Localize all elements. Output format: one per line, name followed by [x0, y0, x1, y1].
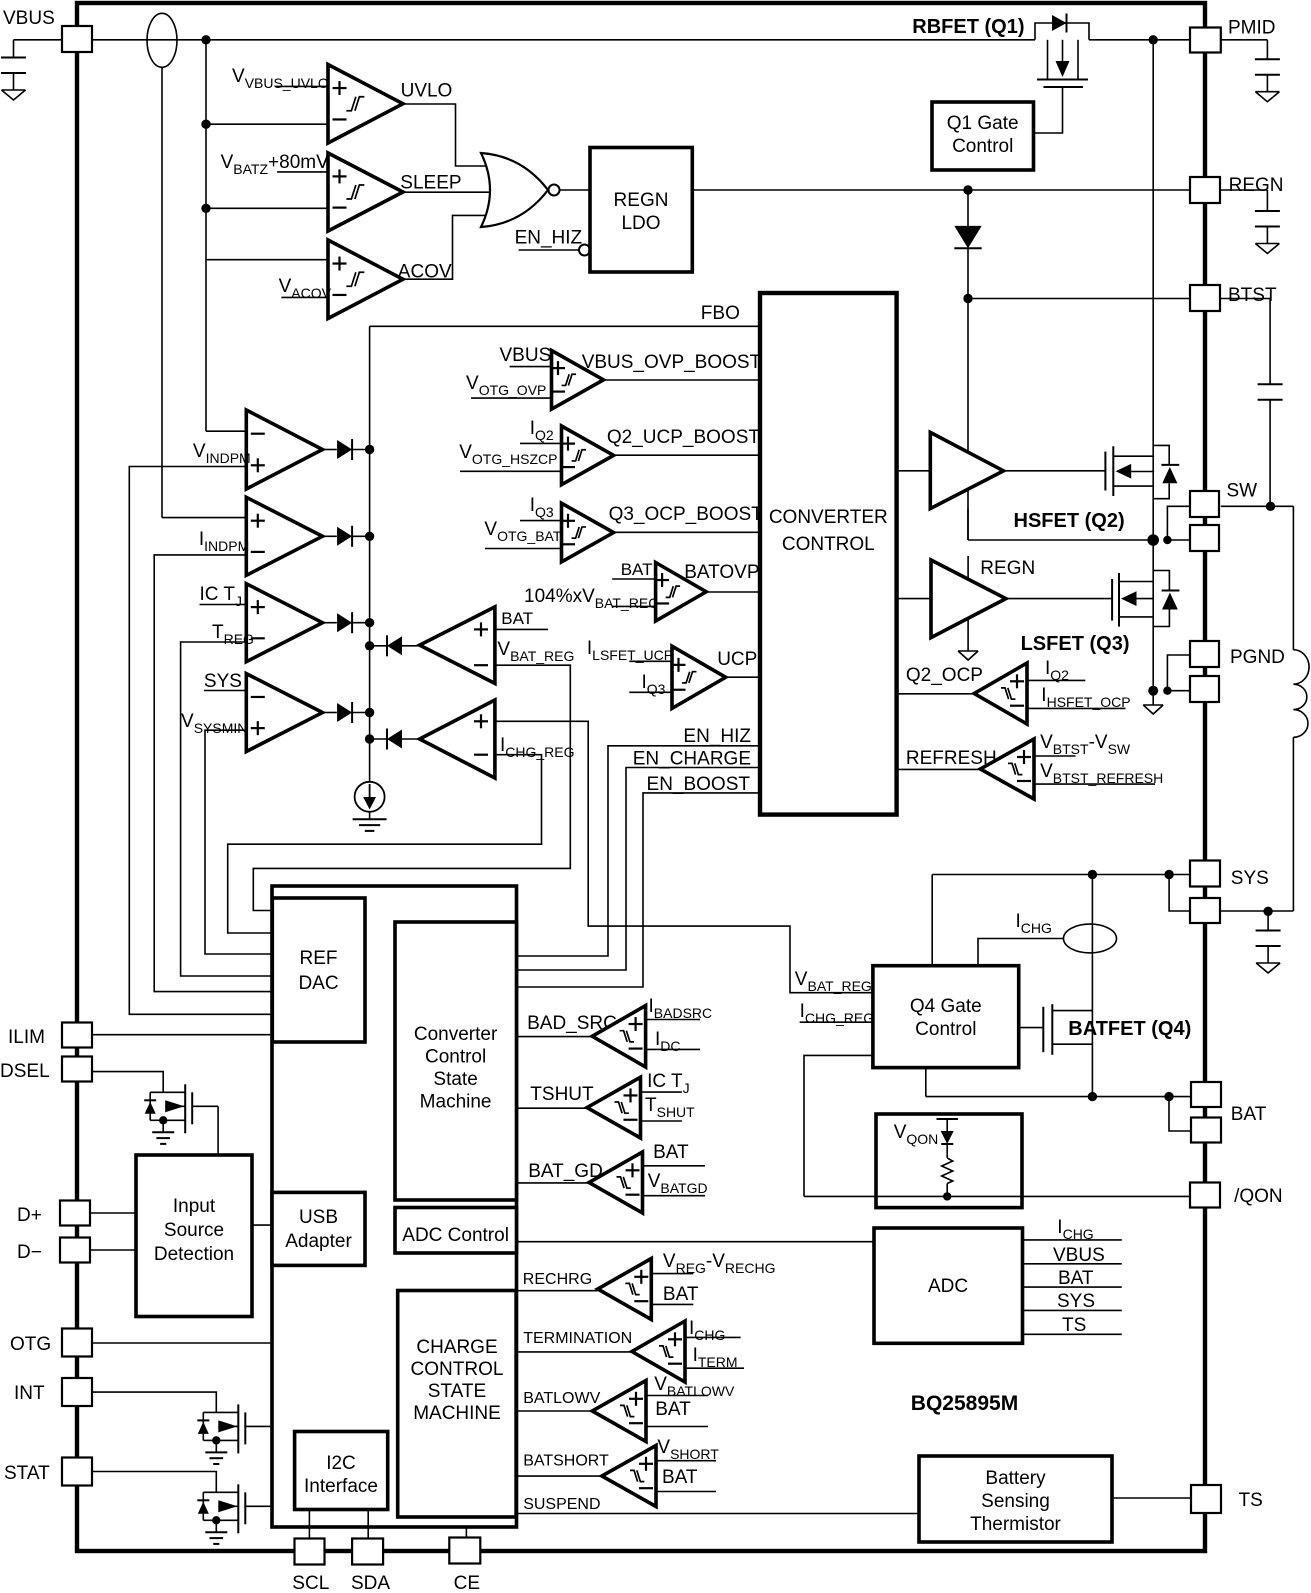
transistor Q1 RBFET channel — [1037, 40, 1088, 80]
label TERMINATION — [523, 1330, 632, 1347]
svg-text:ADC: ADC — [928, 1276, 968, 1297]
wire BAT_GD minus stub — [643, 1195, 706, 1197]
node SYS rail junction (pin tap) — [1164, 870, 1173, 879]
wire RECHRG output — [516, 1290, 598, 1292]
wire STAT to FET — [92, 1472, 216, 1493]
label UCP — [717, 649, 757, 670]
diode V_INDPM output diode — [323, 439, 370, 460]
wire Q3_OCP output — [614, 531, 760, 533]
wire Q4GC gate output — [1019, 1027, 1044, 1029]
wire DSEL to FET gate drop — [92, 1072, 163, 1093]
svg-text:BAT: BAT — [655, 1399, 691, 1420]
wire UVLO output to NOR — [403, 104, 494, 166]
label PMID pin — [1228, 18, 1276, 39]
transistor STAT open-drain FET — [197, 1484, 272, 1544]
wire SLEEP plus stub — [277, 171, 328, 173]
svg-text:Q4 Gate: Q4 Gate — [910, 996, 982, 1017]
label REFRESH — [906, 748, 997, 769]
label VACOV — [279, 276, 332, 301]
label D+ pin — [17, 1205, 42, 1226]
wire ISD to USB Adapter — [252, 1224, 272, 1226]
resistor VQON pull resistor — [942, 1158, 953, 1197]
comparator BAD_SRC — [592, 1006, 645, 1067]
label ICHG_REG (amp input) — [500, 735, 575, 760]
wire TERMINATION output — [516, 1351, 632, 1353]
label USB Adapter text — [285, 1207, 352, 1252]
wire SYS minus stub — [204, 690, 246, 692]
wire ADC out VBUS — [1023, 1263, 1122, 1265]
diode SYS amp output diode — [323, 702, 370, 723]
wire EN_HIZ net — [517, 746, 761, 956]
svg-text:BATLOWV: BATLOWV — [523, 1390, 600, 1407]
block REGN LDO — [590, 148, 692, 273]
wire LSFET driver output — [1006, 598, 1112, 600]
wire UCP output — [726, 676, 760, 678]
label VBATZ+80mV — [221, 152, 329, 177]
label IQ2 (Q2_OCP plus) — [1045, 658, 1069, 683]
svg-text:TSHUT: TSHUT — [530, 1084, 594, 1105]
node error bus junction 2 — [365, 532, 374, 541]
label IC TJ — [200, 584, 243, 609]
diode ICHG_REG amp diode — [370, 729, 420, 750]
svg-text:REGN: REGN — [980, 558, 1035, 579]
svg-text:SCL: SCL — [292, 1573, 329, 1593]
label VSYSMIN — [181, 711, 247, 736]
label IDC — [655, 1029, 681, 1054]
comparator SLEEP — [328, 153, 403, 231]
block Input Source Detection — [136, 1155, 252, 1317]
label CHARGE CONTROL text — [411, 1337, 504, 1424]
wire ICHG_REG stub to Q4GC — [800, 1021, 873, 1023]
wire DSEL FET gate to ISD block — [217, 1106, 219, 1155]
wire BAT_GD plus stub — [643, 1165, 706, 1167]
wire thermistor to TS pin — [1112, 1497, 1191, 1499]
wire PMID rail — [1089, 39, 1190, 41]
block VQON network — [876, 1114, 1022, 1208]
label REGN (LSFET driver supply) — [980, 558, 1035, 579]
label BAT (ADC out) — [1058, 1268, 1094, 1289]
wire Q2_UCP minus stub — [460, 470, 562, 472]
svg-text:Adapter: Adapter — [285, 1231, 352, 1252]
svg-text:TERMINATION: TERMINATION — [523, 1330, 632, 1347]
wire OTG to core — [92, 1342, 272, 1344]
node junction to SLEEP minus — [201, 204, 210, 213]
amplifier LSFET gate driver — [931, 560, 1006, 638]
comparator VBUS_OVP — [551, 351, 604, 410]
node error bus junction 4 — [365, 708, 374, 717]
node SW pin tap — [1163, 536, 1171, 544]
wire BATFET drain vertical — [1091, 875, 1093, 1097]
svg-text:EN_HIZ: EN_HIZ — [683, 726, 751, 747]
wire to UVLO minus input — [206, 123, 328, 125]
capacitor PMID cap and ground — [1255, 59, 1280, 101]
svg-text:REGN: REGN — [1229, 175, 1284, 196]
node SW external junction — [1266, 502, 1275, 511]
svg-text:BAT: BAT — [1231, 1104, 1267, 1125]
label SYS pin — [1231, 868, 1269, 889]
current source error bus bias — [355, 782, 385, 812]
transistor DSEL detect FET — [144, 1084, 218, 1144]
wire Q2_OCP output to converter — [897, 693, 975, 695]
wire REFRESH output to converter — [897, 768, 981, 770]
pin SCL — [295, 1539, 325, 1565]
comparator REFRESH — [980, 739, 1034, 799]
inductor L1 (SW to SYS) — [1293, 650, 1309, 738]
wire BTST cap to SW — [1269, 400, 1271, 507]
label TREG — [212, 622, 254, 647]
wire REFRESH minus stub — [1034, 783, 1155, 785]
diode thermal amp output diode — [323, 612, 370, 633]
diode Q3 body diode — [1154, 571, 1180, 627]
label Q1 Gate Control text — [947, 113, 1019, 157]
wire REFRESH plus stub — [1034, 755, 1076, 757]
label EN_HIZ (converter control) — [683, 726, 751, 747]
label ITERM — [693, 1345, 738, 1370]
comparator RECHRG — [598, 1259, 652, 1320]
block ADC Control — [395, 1208, 517, 1254]
wire TSHUT minus stub — [641, 1120, 682, 1122]
transistor Q1 gate — [1034, 87, 1084, 133]
wire BAT pin2 loop — [1169, 1097, 1191, 1131]
label VBATLOWV — [654, 1374, 735, 1399]
label SYS (amp input) — [204, 671, 242, 692]
amplifier battery voltage reg amp (BAT/VBAT_REG) — [420, 607, 495, 684]
wire BAD_SRC output — [517, 1036, 593, 1038]
svg-text:PGND: PGND — [1230, 647, 1285, 668]
label HSFET (Q2) — [1014, 510, 1125, 532]
ground VBUS input cap ground — [2, 90, 26, 100]
node PMID rail junction — [1149, 35, 1158, 44]
svg-text:DSEL: DSEL — [0, 1061, 50, 1082]
svg-text:STAT: STAT — [4, 1463, 50, 1484]
svg-text:OTG: OTG — [10, 1334, 51, 1355]
diode I_INDPM output diode — [323, 526, 370, 547]
label ILIM pin — [8, 1027, 45, 1048]
label BATLOWV — [523, 1390, 600, 1407]
wire Q3 drain-source vertical — [1152, 540, 1154, 691]
wire V_INDPM plus input — [129, 467, 272, 1015]
svg-text:State: State — [433, 1069, 477, 1090]
svg-text:ILIM: ILIM — [8, 1027, 45, 1048]
svg-text:Q2_OCP: Q2_OCP — [906, 665, 983, 686]
svg-text:REGN: REGN — [614, 190, 669, 211]
pin CE — [449, 1538, 480, 1564]
wire Q4GC to QON net — [804, 1055, 873, 1196]
label BAT (BATSHORT minus) — [662, 1467, 698, 1488]
svg-text:EN_HIZ: EN_HIZ — [515, 228, 583, 249]
wire SW external to inductor — [1221, 506, 1294, 649]
block Q1 Gate Control — [932, 102, 1034, 170]
label LSFET (Q3) — [1021, 633, 1130, 655]
svg-text:EN_CHARGE: EN_CHARGE — [633, 749, 751, 770]
label RBFET (Q1) — [912, 16, 1024, 38]
svg-text:UCP: UCP — [717, 649, 757, 670]
transistor Q2 HSFET channel — [1113, 446, 1154, 496]
svg-text:SYS: SYS — [1231, 868, 1269, 889]
diode Q2 body diode — [1154, 445, 1179, 498]
label VOTG_OVP — [466, 373, 546, 398]
wire TSHUT plus stub — [641, 1091, 682, 1093]
pin SYS (lower) — [1190, 898, 1220, 923]
label CONVERTER CONTROL text — [769, 507, 888, 555]
pin INT — [62, 1378, 92, 1406]
wire REGN cap stub — [1221, 190, 1268, 211]
block Q4 Gate Control — [873, 966, 1019, 1068]
label REGN pin — [1229, 175, 1284, 196]
wire UCP minus stub — [629, 691, 672, 693]
wire UVLO plus stub — [276, 85, 328, 87]
current sense ellipse input current — [147, 13, 177, 67]
label ILSFET_UCP — [587, 638, 673, 663]
label BATOVP — [684, 562, 759, 583]
wire PMID cap stub — [1221, 40, 1268, 59]
wire BATLOWV minus stub — [646, 1426, 708, 1428]
pin TS — [1191, 1485, 1221, 1513]
label BAT (BATOVP plus) — [621, 560, 653, 579]
pin STAT — [62, 1458, 92, 1486]
wire bias to ground — [369, 812, 371, 820]
label IINDPM — [199, 529, 249, 554]
label BAT (vreg amp) — [501, 609, 533, 628]
pin PGND (lower) — [1190, 676, 1219, 702]
diode REGN-to-BTST bootstrap diode — [954, 190, 981, 299]
wire SW rail to driver — [968, 539, 1153, 541]
wire SYS cap stub — [1267, 911, 1269, 930]
svg-text:CONTROL: CONTROL — [411, 1359, 504, 1380]
wire SLEEP output to NOR — [403, 191, 497, 193]
svg-text:Sensing: Sensing — [981, 1491, 1050, 1512]
wire ILIM to REF DAC — [92, 1034, 272, 1036]
label BAT pin — [1231, 1104, 1267, 1125]
wire PGND pin1 loop — [1167, 655, 1190, 691]
label Q4 Gate Control text — [910, 996, 982, 1040]
label Battery Sensing Thermistor text — [970, 1468, 1061, 1535]
label VBUS pin — [3, 8, 55, 29]
label IQ3 (Q3 OCP plus) — [530, 495, 554, 520]
node PGND pin tap — [1163, 687, 1171, 695]
svg-text:D−: D− — [17, 1242, 42, 1263]
block Battery Sensing Thermistor — [919, 1456, 1112, 1542]
wire BATSHORT plus stub — [656, 1460, 716, 1462]
pin REGN — [1190, 177, 1220, 203]
wire Q2_UCP plus stub — [520, 442, 562, 444]
wire D- to ISD — [90, 1249, 136, 1251]
label EN_CHARGE — [633, 749, 751, 770]
wire SUSPEND net to thermistor block — [516, 1513, 919, 1515]
pin SW (lower) — [1190, 525, 1219, 551]
pin BTST — [1190, 285, 1220, 311]
capacitor BTST bootstrap cap — [1258, 384, 1283, 400]
wire ADC out BAT — [1023, 1286, 1122, 1288]
wire HSFET driver output — [1004, 470, 1106, 472]
label SUSPEND — [523, 1496, 600, 1513]
node SW junction (Q2 source / Q3 drain) — [1147, 534, 1159, 546]
label VBTST-VSW — [1040, 732, 1131, 757]
label TSHUT — [530, 1084, 594, 1105]
svg-text:VBUS: VBUS — [3, 8, 55, 29]
svg-text:LDO: LDO — [621, 213, 660, 234]
current sense ellipse ICHG — [1064, 924, 1117, 953]
wire VSYSMIN plus input — [205, 730, 272, 954]
wire PGND to pin2 — [1167, 690, 1190, 692]
wire ICHG sense to Q4GC — [978, 939, 1064, 966]
label VBAT_REG (Q4GC input) — [795, 969, 872, 994]
label REF DAC text — [298, 948, 338, 994]
wire HSFET drain vertical (PMID to Q2) — [1152, 40, 1154, 540]
transistor Q3 LSFET gate bar — [1111, 579, 1113, 621]
svg-text:BAT: BAT — [663, 1284, 699, 1305]
block REF DAC — [272, 898, 365, 1042]
svg-text:Input: Input — [173, 1196, 216, 1217]
label VBTST_REFRESH — [1040, 761, 1163, 786]
wire BAD_SRC plus stub — [646, 1019, 701, 1021]
wire converter to LSFET driver — [897, 598, 931, 600]
wire ADC out SYS — [1023, 1309, 1122, 1311]
wire EN_CHARGE net — [517, 768, 761, 971]
wire ACOV minus stub — [281, 296, 328, 298]
node error bus junction 5 — [365, 641, 374, 650]
wire BTST net to BTST pin — [968, 298, 1190, 300]
svg-text:BQ25895M: BQ25895M — [911, 1392, 1018, 1415]
node error bus junction 1 — [365, 445, 374, 454]
label VSHORT — [657, 1437, 719, 1462]
wire BAT_GD output — [517, 1182, 590, 1184]
node EN_HIZ bubble on REGN LDO — [579, 245, 590, 256]
pin /QON — [1190, 1183, 1220, 1208]
svg-text:CONVERTER: CONVERTER — [769, 507, 888, 528]
label ICHG (ADC out) — [1057, 1217, 1093, 1242]
svg-text:RECHRG: RECHRG — [523, 1271, 592, 1288]
label BTST pin — [1228, 285, 1277, 306]
pin SDA — [352, 1539, 383, 1565]
label Q3_OCP_BOOST — [609, 504, 764, 525]
wire ellipse sense branch (x=162 down to I_INDPM) — [162, 67, 246, 517]
label RECHRG — [523, 1271, 592, 1288]
label SCL pin — [292, 1573, 329, 1593]
wire error amp bus vertical — [369, 326, 371, 782]
svg-text:CONTROL: CONTROL — [782, 534, 875, 555]
label ADC text — [928, 1276, 968, 1297]
label VOTG_BAT — [484, 519, 561, 544]
comparator Q2_OCP — [974, 663, 1027, 724]
wire BAT plus stub — [496, 628, 548, 630]
wire Q3_OCP plus stub — [520, 520, 562, 522]
label ICHG_REG (Q4GC input) — [800, 1001, 875, 1026]
label BAT (RECHRG minus) — [663, 1284, 699, 1305]
label IHSFET_OCP — [1041, 685, 1130, 710]
label ACOV — [398, 262, 452, 283]
svg-text:Detection: Detection — [154, 1244, 234, 1265]
wire TERMINATION minus stub — [685, 1367, 744, 1369]
wire VBAT_REG net to REF DAC — [253, 665, 570, 910]
svg-text:Machine: Machine — [420, 1092, 492, 1113]
svg-text:BAT_GD: BAT_GD — [528, 1161, 603, 1182]
node PGND junction — [1148, 686, 1158, 696]
comparator BATSHORT — [602, 1446, 656, 1507]
block USB Adapter — [272, 1192, 365, 1265]
wire ACOV output to NOR — [403, 215, 494, 279]
transistor Q3 LSFET channel — [1119, 573, 1154, 627]
svg-text:BATFET (Q4): BATFET (Q4) — [1068, 1018, 1191, 1040]
label Input Source Detection text — [154, 1196, 234, 1265]
label VBUS (OVP comparator plus) — [500, 345, 552, 366]
diode VQON diode — [937, 1119, 959, 1158]
svg-text:BATSHORT: BATSHORT — [523, 1453, 609, 1470]
svg-text:VBUS: VBUS — [500, 345, 552, 366]
svg-text:BAT: BAT — [1058, 1268, 1094, 1289]
amplifier thermal regulation error amp (IC TJ / TREG) — [246, 584, 322, 662]
svg-text:UVLO: UVLO — [401, 81, 453, 102]
svg-text:Converter: Converter — [414, 1024, 498, 1045]
svg-text:SUSPEND: SUSPEND — [523, 1496, 600, 1513]
label ICHG (termination plus) — [689, 1318, 725, 1343]
svg-text:REF: REF — [300, 948, 338, 969]
svg-text:EN_BOOST: EN_BOOST — [647, 774, 751, 795]
label IBADSRC — [649, 996, 713, 1021]
svg-text:SW: SW — [1227, 481, 1258, 502]
svg-text:HSFET (Q2): HSFET (Q2) — [1014, 510, 1125, 532]
wire ADC out TS — [1023, 1333, 1122, 1335]
pin D- — [60, 1238, 90, 1263]
wire Q3_OCP minus stub — [485, 548, 562, 550]
svg-text:SYS: SYS — [1057, 1291, 1095, 1312]
wire UCP plus stub — [629, 660, 672, 662]
svg-text:BAT: BAT — [621, 560, 653, 579]
svg-text:BAT: BAT — [662, 1467, 698, 1488]
gate NOR U1 (UVLO/SLEEP/ACOV combine) — [481, 153, 560, 227]
wire TSHUT output — [517, 1107, 588, 1109]
node BAT rail junction (pin tap) — [1164, 1092, 1173, 1101]
label VINDPM — [193, 441, 251, 466]
wire Q4GC to SYS rail — [931, 875, 933, 966]
svg-text:Control: Control — [425, 1047, 486, 1068]
node junction to UVLO minus — [201, 120, 210, 129]
node SYS rail junction (BATFET drain) — [1088, 870, 1097, 879]
label BAT (BAT_GD plus) — [653, 1142, 689, 1163]
wire TERMINATION plus stub — [685, 1336, 741, 1338]
pin ILIM — [62, 1023, 92, 1048]
pin BAT (lower) — [1191, 1118, 1221, 1143]
label SW pin — [1227, 481, 1258, 502]
node QON junction — [943, 1192, 951, 1200]
wire VBUS rail (pin to RBFET) — [92, 39, 1035, 41]
comparator UVLO — [328, 65, 403, 144]
transistor Q1 RBFET body diode loop — [1035, 14, 1089, 40]
wire SCL stub — [308, 1510, 310, 1539]
label EN_HIZ (REGN LDO enable) — [515, 228, 583, 249]
wire TREG minus input — [181, 642, 273, 976]
svg-text:PMID: PMID — [1228, 18, 1276, 39]
label CCSM text — [414, 1024, 498, 1113]
ground LSFET driver ground — [958, 651, 978, 660]
ground PGND internal ground — [1143, 691, 1163, 714]
label STAT pin — [4, 1463, 50, 1484]
label VBUS_OVP_BOOST — [582, 352, 762, 373]
svg-text:MACHINE: MACHINE — [413, 1403, 501, 1424]
wire BATLOWV plus stub — [646, 1395, 708, 1397]
wire VBUS_OVP output — [604, 379, 761, 381]
svg-text:VBUS_OVP_BOOST: VBUS_OVP_BOOST — [582, 352, 762, 373]
transistor Q4 BATFET — [1043, 1004, 1092, 1055]
label BATSHORT — [523, 1453, 609, 1470]
comparator Q3_OCP — [561, 503, 614, 562]
wire BAD_SRC minus stub — [646, 1048, 701, 1050]
label ICHG (sense) — [1016, 911, 1052, 936]
transistor INT open-drain FET — [197, 1404, 272, 1464]
wire SDA stub — [367, 1510, 369, 1539]
label VBUS (ADC out) — [1053, 1245, 1105, 1266]
wire LSFET driver ground stub — [967, 619, 969, 652]
